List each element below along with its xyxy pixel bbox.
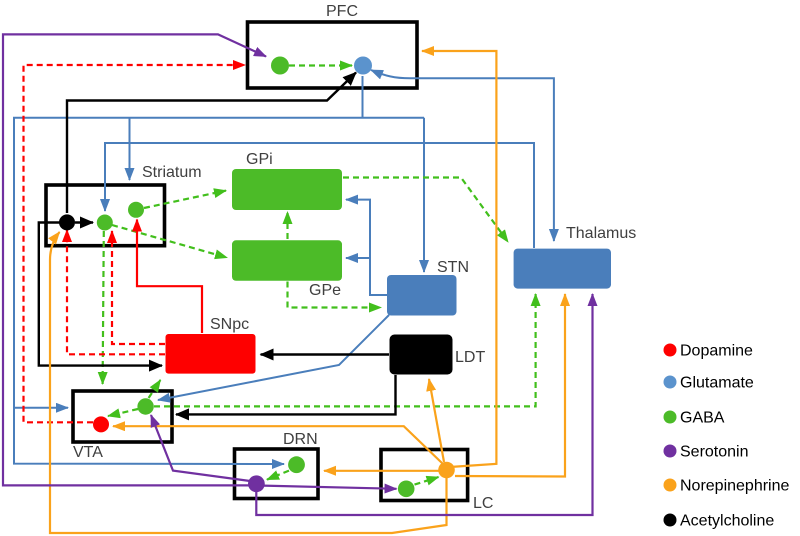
wire orange LC to PFC: [422, 51, 496, 467]
svg-text:GPe: GPe: [309, 282, 341, 299]
svg-text:LC: LC: [473, 495, 493, 512]
svg-text:VTA: VTA: [73, 444, 103, 461]
node LC norepinephrine neuron: [438, 462, 455, 479]
wire green dashed GPi to Thalamus: [343, 178, 508, 243]
node VTA dopamine neuron: [93, 416, 109, 432]
node DRN GABA neuron: [288, 456, 305, 473]
legend glutamate: [664, 376, 677, 389]
wire blue PFC down to trunk: [362, 76, 364, 118]
node LC GABA neuron: [398, 481, 415, 498]
wire blue PFC-Thalamus bidirectional: [371, 70, 554, 241]
legend dopamine: [664, 344, 677, 357]
box STN: [387, 275, 457, 316]
wire blue PFC trunk to DRN: [14, 118, 424, 464]
wire purple DRN to LC GABA: [263, 486, 397, 489]
svg-text:Acetylcholine: Acetylcholine: [680, 513, 774, 530]
wire green dashed VTA GABA to SNpc: [149, 380, 161, 398]
wire red solid SNpc to Striatum GABA2: [137, 220, 202, 334]
node DRN serotonin neuron: [248, 475, 265, 492]
wire green dashed GPe to STN: [288, 282, 382, 308]
svg-text:Dopamine: Dopamine: [680, 343, 753, 360]
wire green dashed DRN GABA to DRN serotonin: [267, 471, 289, 480]
wire red dashed SNpc to Striatum GABA1: [112, 231, 165, 344]
node VTA GABA neuron: [137, 398, 153, 414]
wire green dashed PFC GABA to glutamate: [289, 64, 352, 66]
wire orange LC to Thalamus: [455, 294, 565, 477]
box GPi: [232, 169, 342, 210]
svg-text:GPi: GPi: [246, 151, 273, 168]
wire black LDT to SNpc: [261, 353, 389, 355]
wire green dashed GPe to GPi: [286, 212, 288, 239]
legend serotonin: [664, 445, 677, 458]
wire blue STN to VTA: [158, 315, 389, 400]
box VTA: [73, 391, 172, 442]
box DRN: [235, 449, 319, 499]
wire orange LC to DRN: [324, 470, 440, 472]
box LC: [381, 450, 468, 501]
box Thalamus: [514, 249, 611, 289]
wire red dashed VTA dopamine to PFC: [24, 65, 246, 422]
svg-text:LDT: LDT: [455, 349, 485, 366]
wire black LDT to VTA: [176, 375, 396, 414]
node PFC GABA neuron: [271, 57, 289, 75]
wire blue Thalamus to Striatum GABA1: [105, 143, 534, 248]
wire blue PFC to STN: [423, 118, 425, 272]
node Striatum GABA2 neuron: [128, 202, 144, 218]
box GPe: [232, 240, 342, 280]
svg-text:Thalamus: Thalamus: [566, 225, 636, 242]
wire green dashed Striatum GABA1 to GPe: [112, 225, 227, 258]
node Striatum ACh neuron: [59, 214, 75, 230]
box LDT: [390, 335, 453, 375]
wire green dashed Striatum GABA1 to VTA: [103, 231, 104, 384]
wire orange LC to LDT: [429, 379, 444, 462]
wire orange LC to VTA dopamine: [113, 426, 443, 464]
box SNpc: [166, 334, 256, 374]
wire black Striatum ACh to SNpc: [39, 223, 162, 366]
wire blue STN to GPe: [346, 257, 370, 259]
wire black Striatum ACh to GABA1: [75, 221, 93, 223]
wire green dashed Striatum GABA2 to GPi: [144, 191, 226, 208]
wire black Striatum ACh to PFC: [67, 73, 356, 214]
node PFC glutamate neuron: [354, 57, 372, 75]
wire green dashed VTA GABA to VTA dopamine: [108, 409, 138, 416]
wire blue PFC to Striatum box: [129, 118, 131, 180]
box PFC: [248, 22, 418, 88]
svg-text:Norepinephrine: Norepinephrine: [680, 478, 790, 495]
svg-text:PFC: PFC: [326, 3, 358, 20]
legend acetylcholine: [664, 514, 677, 527]
svg-text:DRN: DRN: [283, 431, 318, 448]
wire purple DRN to Thalamus: [256, 294, 592, 515]
svg-text:STN: STN: [437, 259, 469, 276]
wire green dashed LC GABA to LC norepinephrine: [415, 477, 439, 485]
node Striatum GABA1 neuron: [97, 215, 113, 231]
svg-text:Serotonin: Serotonin: [680, 444, 749, 461]
svg-text:Glutamate: Glutamate: [680, 375, 754, 392]
svg-text:Striatum: Striatum: [142, 164, 202, 181]
wire blue PFC to VTA: [14, 407, 68, 409]
legend norepinephrine: [664, 479, 677, 492]
wire red dashed SNpc to Striatum ACh: [67, 230, 165, 354]
wire purple DRN to PFC: [3, 34, 266, 485]
wire orange LC to Striatum ACh: [50, 232, 447, 533]
wire green dashed VTA GABA to Thalamus: [154, 294, 536, 406]
wire blue STN to GPi: [346, 200, 387, 295]
legend GABA: [664, 411, 677, 424]
box Striatum: [46, 185, 165, 246]
wire purple DRN to VTA GABA: [151, 415, 250, 481]
svg-text:SNpc: SNpc: [210, 316, 249, 333]
svg-text:GABA: GABA: [680, 410, 725, 427]
